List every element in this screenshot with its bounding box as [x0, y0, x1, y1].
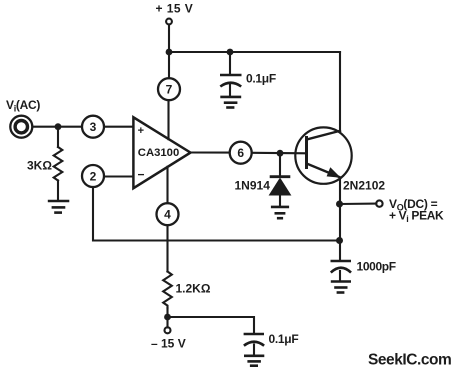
svg-text:1000pF: 1000pF: [357, 260, 396, 274]
svg-text:1N914: 1N914: [235, 179, 271, 193]
svg-text:3: 3: [90, 120, 97, 134]
svg-text:3KΩ: 3KΩ: [27, 159, 52, 173]
svg-text:+: +: [138, 125, 144, 137]
svg-text:– 15 V: – 15 V: [151, 337, 186, 351]
svg-text:+ Vi PEAK: + Vi PEAK: [389, 208, 444, 224]
svg-text:6: 6: [237, 146, 244, 160]
svg-text:CA3100: CA3100: [138, 147, 179, 159]
svg-text:SeekIC.com: SeekIC.com: [368, 352, 451, 369]
svg-text:0.1μF: 0.1μF: [246, 72, 276, 86]
svg-text:Vi(AC): Vi(AC): [6, 98, 40, 114]
svg-text:1.2KΩ: 1.2KΩ: [176, 282, 211, 296]
svg-text:2N2102: 2N2102: [343, 179, 385, 193]
svg-text:4: 4: [164, 208, 171, 222]
svg-text:−: −: [137, 167, 144, 181]
svg-text:2: 2: [90, 169, 97, 183]
svg-text:+ 15 V: + 15 V: [156, 2, 194, 16]
svg-text:0.1μF: 0.1μF: [269, 332, 299, 346]
svg-text:7: 7: [166, 83, 173, 97]
